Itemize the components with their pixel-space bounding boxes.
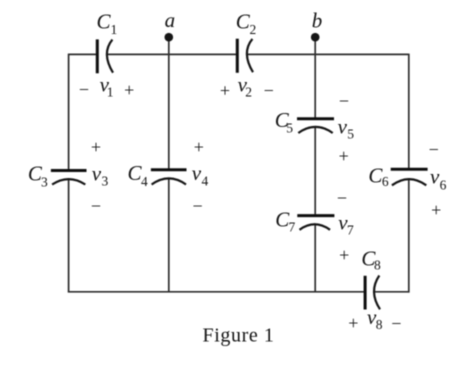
wire: branch a lower segment (C4 curved plate down to bottom wire) xyxy=(168,178,170,291)
svg-text:6: 6 xyxy=(440,178,447,193)
svg-text:7: 7 xyxy=(347,222,354,237)
svg-text:+: + xyxy=(194,137,204,157)
svg-text:+: + xyxy=(91,137,101,157)
svg-text:5: 5 xyxy=(347,127,354,142)
svg-text:v: v xyxy=(92,162,102,186)
label C8 xyxy=(361,246,381,272)
wire: top side, right segment (C2 curved plate through node b to top-right corner) xyxy=(247,53,408,55)
svg-text:8: 8 xyxy=(374,258,381,273)
svg-text:−: − xyxy=(193,196,203,216)
value label v3 with polarity (plus above, minus below) xyxy=(91,137,109,216)
label C7 xyxy=(275,208,295,235)
svg-text:7: 7 xyxy=(289,220,296,235)
capacitor C6 (vertical, right side) xyxy=(391,169,428,185)
wire: node a stub (dot a down to top wire) xyxy=(168,38,170,55)
svg-text:8: 8 xyxy=(376,317,383,332)
value label v8 with polarity (plus v8 minus) xyxy=(348,305,401,333)
svg-text:−: − xyxy=(337,188,347,208)
wire: bottom side, right segment (C8 curved plate to bottom-right corner) xyxy=(375,291,409,293)
svg-text:−: − xyxy=(91,196,101,216)
svg-text:−: − xyxy=(79,79,89,99)
value label v6 with polarity (minus above, plus below) xyxy=(429,140,447,220)
svg-text:−: − xyxy=(264,81,274,101)
wire: branch a upper segment (top wire down to C4 top plate) xyxy=(168,54,170,169)
svg-text:2: 2 xyxy=(245,85,252,100)
svg-text:5: 5 xyxy=(286,121,293,136)
svg-text:v: v xyxy=(338,115,348,139)
capacitor C1 (horizontal, top wire) xyxy=(97,39,113,73)
svg-text:−: − xyxy=(429,140,439,160)
wire: branch b lower segment (C7 curved plate down to bottom wire) xyxy=(314,224,316,291)
svg-text:+: + xyxy=(124,80,134,100)
label C3 xyxy=(28,162,48,190)
svg-text:+: + xyxy=(220,81,230,101)
svg-text:+: + xyxy=(348,313,358,333)
svg-text:v: v xyxy=(192,161,202,185)
label C4 xyxy=(128,161,149,189)
svg-text:1: 1 xyxy=(107,85,114,100)
svg-text:−: − xyxy=(339,91,349,111)
svg-text:3: 3 xyxy=(41,174,48,189)
wire: top side, middle segment (C1 curved plate through node a to C2 left plate) xyxy=(107,53,236,55)
svg-text:4: 4 xyxy=(141,174,148,189)
svg-text:−: − xyxy=(391,314,401,334)
capacitor C7 (vertical, branch b lower) xyxy=(297,216,334,230)
svg-text:b: b xyxy=(312,8,323,32)
svg-text:+: + xyxy=(339,146,349,166)
wire: left side, upper segment (top-left corner down to C3 top plate) xyxy=(68,54,70,170)
label C6 xyxy=(368,163,389,189)
capacitor C8 (horizontal, bottom wire) xyxy=(365,276,380,310)
value label v5 with polarity (minus above, plus below) xyxy=(338,91,355,166)
node b junction dot xyxy=(311,33,320,42)
value label v4 with polarity (plus above, minus below) xyxy=(192,137,209,216)
wire: bottom side, left segment (bottom-left corner to C8 left plate) xyxy=(68,291,364,293)
svg-text:+: + xyxy=(339,245,349,265)
wire: left side, lower segment (C3 curved plate down to bottom-left corner) xyxy=(68,179,70,292)
label C2 xyxy=(236,10,256,38)
value label v2 with polarity (plus v2 minus) xyxy=(220,73,274,101)
svg-text:v: v xyxy=(430,164,440,188)
svg-text:6: 6 xyxy=(382,174,389,189)
svg-text:1: 1 xyxy=(111,22,118,37)
svg-text:4: 4 xyxy=(202,174,209,189)
svg-text:2: 2 xyxy=(250,22,257,37)
wire: right side, lower segment (C6 curved plate down to bottom-right corner) xyxy=(408,179,410,293)
node a junction dot xyxy=(165,33,174,42)
capacitor C5 (vertical, branch b upper) xyxy=(297,119,334,133)
wire: branch b upper segment (top wire down to C5 top plate) xyxy=(314,54,316,118)
wire: top side, left segment (left corner to C1 left plate) xyxy=(69,53,97,55)
svg-text:3: 3 xyxy=(102,174,109,189)
label C1 xyxy=(97,10,118,38)
wire: node b stub (dot b down to top wire) xyxy=(314,38,316,55)
value label v7 with polarity (minus above, plus below) xyxy=(337,188,354,265)
svg-text:+: + xyxy=(431,200,441,220)
capacitor C3 (vertical, left side) xyxy=(51,171,87,185)
svg-text:a: a xyxy=(165,8,176,32)
svg-text:Figure 1: Figure 1 xyxy=(203,325,275,347)
capacitor C2 (horizontal, top wire) xyxy=(237,39,253,73)
svg-text:C: C xyxy=(97,10,112,34)
label C5 xyxy=(275,108,293,136)
wire: right side, upper segment (top-right corner down to C6 top plate) xyxy=(408,54,410,169)
capacitor C4 (vertical, branch a) xyxy=(151,170,187,185)
value label v1 with polarity (minus v1 plus) xyxy=(79,73,134,101)
wire: branch b middle segment (C5 curved plate down to C7 top plate) xyxy=(314,127,316,215)
